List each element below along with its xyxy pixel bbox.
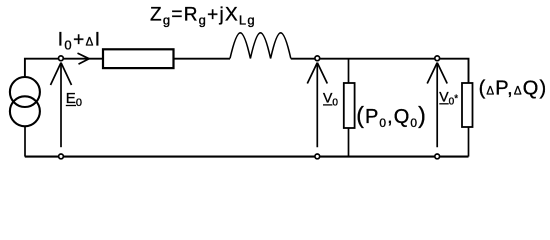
label V0 bbox=[323, 90, 338, 109]
node bottom V0 bbox=[315, 154, 320, 159]
wire bottom bus bbox=[25, 156, 469, 158]
wire lead load 1 bottom bbox=[348, 128, 350, 157]
wire between resistor and inductor bbox=[174, 58, 230, 60]
node top V0 bbox=[315, 56, 320, 61]
source G1 (two overlapping circles) bbox=[10, 77, 40, 126]
label E0 bbox=[66, 90, 82, 109]
wire lead load 2 bottom bbox=[468, 127, 470, 157]
wire lead load 1 top bbox=[348, 59, 350, 83]
node top V0* bbox=[435, 56, 440, 61]
label V0* bbox=[439, 89, 458, 108]
node bottom-left bbox=[59, 154, 64, 159]
load 1 rectangle (P0,Q0) bbox=[344, 83, 355, 128]
node top-left bbox=[59, 56, 64, 61]
node bottom V0* bbox=[435, 154, 440, 159]
inductor Lg bbox=[230, 33, 291, 59]
wire top from source to resistor bbox=[25, 59, 103, 77]
svg-text:I0+ΔI: I0+ΔI bbox=[58, 29, 102, 52]
wire from inductor to right load corner bbox=[291, 59, 469, 83]
current arrow I0+dI bbox=[78, 53, 90, 64]
arrow E0 bbox=[51, 63, 72, 148]
arrow V0 bbox=[307, 63, 327, 148]
arrow V0* bbox=[427, 63, 447, 148]
resistor Rg bbox=[103, 49, 174, 68]
wire source bottom lead bbox=[24, 127, 26, 157]
load 2 rectangle (dP,dQ) bbox=[462, 83, 473, 127]
